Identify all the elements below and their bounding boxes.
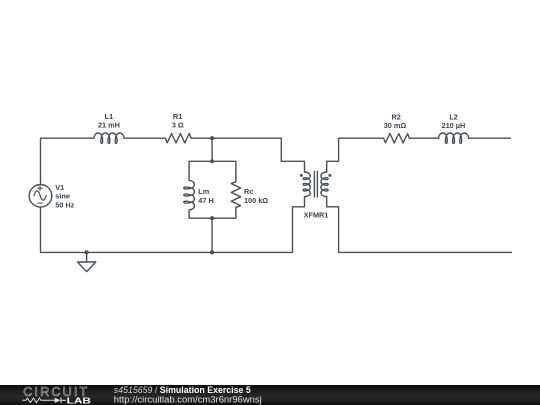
wire R2 to L2	[409, 137, 438, 139]
inductor L1	[94, 133, 124, 143]
wire bottom rail left	[41, 251, 293, 253]
wire box bottom to bottom rail	[211, 218, 213, 252]
svg-text:47 H: 47 H	[198, 196, 213, 205]
inductor L2	[439, 133, 469, 143]
svg-text:50 Hz: 50 Hz	[55, 200, 74, 209]
svg-text:210 µH: 210 µH	[442, 121, 466, 130]
svg-text:http://circuitlab.com/cm3r6nr9: http://circuitlab.com/cm3r6nr96wnsj	[114, 395, 262, 405]
wire left vertical from V1	[40, 138, 42, 184]
primary bottom lead	[293, 197, 305, 253]
svg-text:sine: sine	[55, 192, 70, 201]
resistor R1	[165, 134, 191, 143]
wire L1 to R1	[124, 137, 165, 139]
resistor R2	[384, 134, 410, 143]
wire parallel box top rail	[189, 161, 236, 181]
wire transformer primary top step	[281, 138, 304, 172]
logo circuit icon (resistor + diode)	[22, 397, 66, 403]
svg-text:Lm: Lm	[198, 187, 209, 196]
inductor Lm	[184, 180, 195, 209]
secondary top lead	[327, 138, 339, 172]
svg-text:21 mH: 21 mH	[98, 120, 120, 129]
node A junction	[210, 136, 214, 140]
wire top rail left (V1 to transformer)	[41, 137, 95, 139]
dot primary	[300, 174, 303, 177]
node box top junction	[210, 159, 214, 163]
svg-text:XFMR1: XFMR1	[304, 211, 329, 220]
node box bottom junction	[210, 216, 214, 220]
secondary bottom lead	[327, 197, 339, 253]
wire bottom rail right	[339, 251, 512, 253]
svg-text:Rc: Rc	[244, 187, 253, 196]
svg-text:s4515659 / Simulatio: s4515659 / Simulation Exercise 5	[114, 385, 251, 395]
footer bar	[0, 385, 540, 405]
ground	[77, 252, 95, 271]
wire node A vertical down to parallel box	[211, 138, 213, 161]
node ground junction	[85, 250, 89, 254]
core lines	[313, 172, 315, 198]
wire top rail right (transformer to R2)	[339, 137, 384, 139]
svg-text:100 kΩ: 100 kΩ	[244, 196, 268, 205]
svg-text:V1: V1	[55, 183, 64, 192]
junction dots	[85, 136, 215, 254]
secondary coil	[321, 172, 328, 197]
component labels	[55, 112, 465, 220]
svg-text:LAB: LAB	[67, 396, 92, 405]
svg-text:30 mΩ: 30 mΩ	[384, 121, 407, 130]
node bottom rail junction	[210, 250, 214, 254]
wire R1 to node A	[191, 137, 281, 139]
svg-text:3 Ω: 3 Ω	[172, 121, 184, 130]
resistor Rc	[231, 182, 240, 208]
voltage source V1	[29, 185, 52, 208]
transformer XFMR1	[293, 138, 339, 252]
primary coil	[303, 172, 310, 197]
wire parallel box bottom rail	[189, 207, 236, 218]
dot secondary	[328, 174, 331, 177]
wire L2 to right end	[469, 137, 511, 139]
